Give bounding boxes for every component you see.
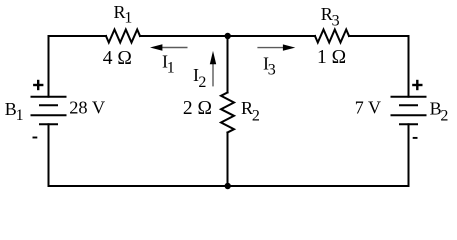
svg-text:R3: R3 xyxy=(321,4,340,30)
svg-text:4 Ω: 4 Ω xyxy=(103,48,132,69)
wire top-left segment xyxy=(49,35,107,37)
wire right side upper (B2 top lead) xyxy=(408,36,410,97)
current arrow I1 xyxy=(150,44,188,50)
polarity plus B2 xyxy=(412,80,422,90)
wire left side upper (B1 top lead) xyxy=(48,36,50,97)
svg-text:B1: B1 xyxy=(5,99,24,124)
node junction top xyxy=(225,33,231,39)
polarity minus B2 xyxy=(413,137,418,139)
wire right side lower (B2 bottom lead) xyxy=(408,124,410,186)
wire left side lower (B1 bottom lead) xyxy=(48,124,50,186)
svg-text:I3: I3 xyxy=(263,53,276,78)
polarity minus B1 xyxy=(33,137,38,139)
wire middle branch lower (R2 bottom lead) xyxy=(227,133,229,187)
battery B1 xyxy=(32,97,66,125)
svg-text:I1: I1 xyxy=(162,51,175,76)
wire middle branch upper (R2 top lead) xyxy=(227,36,229,93)
battery B2 xyxy=(392,97,426,125)
svg-text:2 Ω: 2 Ω xyxy=(183,98,212,119)
svg-text:7 V: 7 V xyxy=(355,98,381,118)
svg-text:R2: R2 xyxy=(241,98,260,124)
wire top-middle segment xyxy=(140,35,315,37)
polarity plus B1 xyxy=(33,80,43,90)
svg-text:B2: B2 xyxy=(430,99,449,125)
svg-text:R1: R1 xyxy=(114,2,133,26)
svg-text:I2: I2 xyxy=(193,65,206,91)
wire top-right segment xyxy=(349,35,409,37)
resistor R2 xyxy=(221,93,234,133)
resistor R1 xyxy=(106,30,140,43)
resistor R3 xyxy=(315,30,349,43)
current arrow I2 xyxy=(210,51,216,87)
current arrow I3 xyxy=(257,44,295,50)
wire bottom segment xyxy=(49,185,409,187)
svg-text:1 Ω: 1 Ω xyxy=(317,47,346,68)
node junction bottom xyxy=(225,183,231,189)
svg-text:28 V: 28 V xyxy=(69,97,106,117)
